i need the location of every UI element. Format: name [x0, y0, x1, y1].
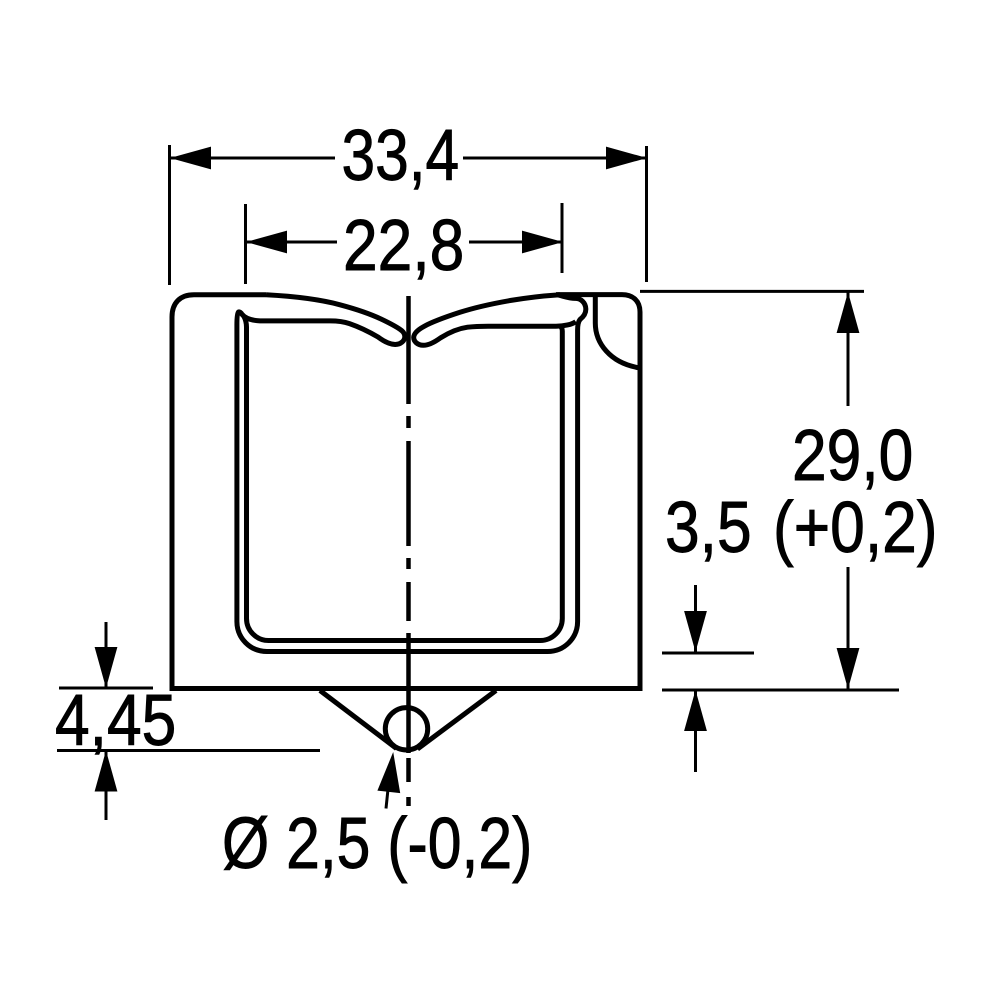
- ext 33,4 right: [645, 146, 648, 282]
- right flap (upper surface, center curl, lower surface): [414, 295, 576, 346]
- svg-text:22,8: 22,8: [343, 206, 464, 286]
- hole circle: [385, 708, 427, 750]
- top-right cutout edge and sweep curve: [595, 296, 639, 368]
- dimension lines: [106, 158, 848, 820]
- arrow 22,8 right: [522, 231, 563, 254]
- liner inner surface: [244, 317, 562, 641]
- arrow 29,0 up: [837, 292, 860, 333]
- dim line 33,4: [170, 157, 335, 160]
- arrow 29,0 down: [837, 648, 860, 689]
- outer housing box (left edge, bottom edge, right edge, top-right edge): [172, 295, 640, 750]
- ext 4,45 upper: [59, 687, 153, 690]
- V protrusion right line: [418, 691, 497, 750]
- svg-text:(+0,2): (+0,2): [773, 488, 938, 568]
- arrow 4,45 down: [95, 647, 118, 688]
- arrow 3,5 down: [684, 611, 707, 652]
- ext 3,5 upper: [662, 652, 754, 655]
- arrow 3,5 up: [684, 690, 707, 731]
- left flap (top edge slope, center curl, lower surface) + liner outer surface + right strip end cap: [237, 295, 586, 652]
- arrowheads: [95, 147, 860, 794]
- dim line 3,5 upper: [694, 585, 697, 652]
- ext 4,45 lower: [57, 749, 320, 752]
- arrow 22,8 left: [246, 231, 287, 254]
- dim line 22,8: [246, 241, 337, 244]
- ext 29,0 top: [640, 290, 864, 293]
- arrow 33,4 left: [170, 147, 211, 170]
- svg-text:29,0: 29,0: [792, 416, 913, 496]
- leader line dia 2,5: [386, 770, 390, 809]
- housing top-left corner: [172, 295, 266, 317]
- ext 29,0 / 3,5 bottom: [662, 689, 899, 692]
- ext 22,8 right: [561, 203, 564, 273]
- centerline (dash-dot): [406, 296, 411, 806]
- ext 33,4 left: [168, 145, 171, 285]
- dim line 4,45 upper: [105, 622, 108, 688]
- dimension texts: [55, 116, 938, 884]
- V protrusion left line: [320, 691, 397, 749]
- extension lines: [57, 145, 899, 751]
- svg-text:3,5: 3,5: [665, 488, 752, 568]
- svg-text:Ø 2,5 (-0,2): Ø 2,5 (-0,2): [222, 804, 532, 884]
- dim line 3,5 lower: [694, 690, 697, 772]
- arrow dia 2,5 leader: [377, 752, 400, 793]
- ext 22,8 left: [244, 204, 247, 284]
- arrow 33,4 right: [606, 147, 647, 170]
- arrow 4,45 up: [95, 751, 118, 792]
- dim line 29,0: [847, 292, 850, 406]
- svg-text:33,4: 33,4: [342, 116, 460, 196]
- svg-text:4,45: 4,45: [55, 681, 176, 761]
- dim line 4,45 lower: [105, 751, 108, 821]
